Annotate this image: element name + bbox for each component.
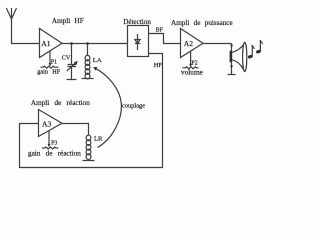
svg-text:gain de réaction: gain de réaction	[28, 149, 81, 157]
svg-text:couplage: couplage	[122, 102, 145, 109]
svg-text:HF: HF	[154, 62, 163, 69]
svg-text:P2: P2	[191, 61, 197, 67]
svg-text:Détection: Détection	[123, 18, 151, 26]
svg-text:Ampli de puissance: Ampli de puissance	[171, 19, 233, 27]
svg-text:CV: CV	[62, 54, 71, 61]
svg-text:LR: LR	[94, 136, 103, 143]
svg-text:HF: HF	[52, 68, 60, 75]
svg-text:gain: gain	[37, 68, 48, 75]
svg-text:A3: A3	[42, 120, 51, 129]
svg-text:Ampli HF: Ampli HF	[52, 17, 84, 25]
svg-text:LA: LA	[93, 57, 102, 64]
svg-text:P3: P3	[51, 140, 57, 146]
svg-text:BF: BF	[156, 27, 164, 33]
svg-text:volume: volume	[181, 67, 203, 76]
svg-text:A1: A1	[41, 39, 50, 48]
svg-text:Ampli de réaction: Ampli de réaction	[31, 99, 90, 107]
svg-text:A2: A2	[184, 39, 193, 48]
svg-text:P1: P1	[51, 59, 57, 65]
